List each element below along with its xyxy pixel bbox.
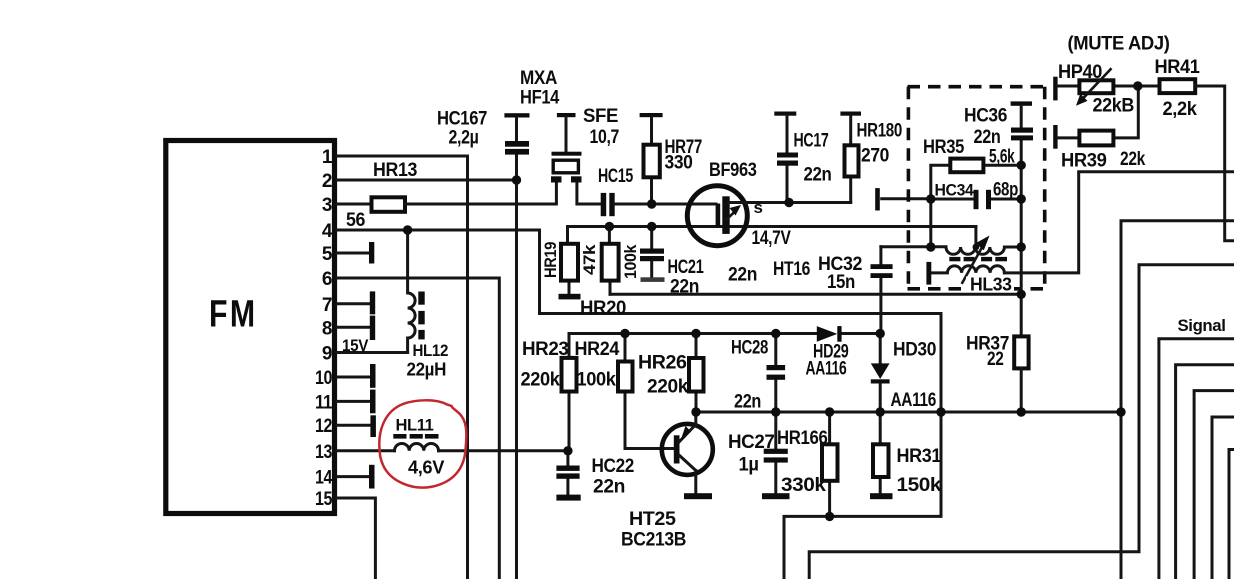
inductor HL12 22µH: [408, 230, 416, 353]
svg-text:4,6V: 4,6V: [408, 458, 444, 478]
svg-text:68p: 68p: [993, 180, 1018, 201]
svg-text:HR24: HR24: [575, 339, 620, 360]
wire pin6 to vertical bus: [337, 278, 499, 579]
junction HR35/HC36: [1017, 161, 1026, 170]
svg-text:330: 330: [665, 153, 693, 174]
svg-text:14: 14: [315, 468, 333, 489]
wire pin15: [337, 498, 375, 579]
wire pin8 stub: [337, 326, 370, 329]
terminal bar pin10: [370, 364, 376, 388]
svg-text:HR20: HR20: [580, 298, 626, 319]
svg-text:HL12: HL12: [413, 341, 449, 360]
resistor HR26 220k: [695, 334, 698, 413]
wire pin4 feed: [337, 230, 941, 412]
wire bus line 3: [1194, 391, 1234, 579]
wire mute output: [1121, 221, 1234, 579]
wire pin1 to vertical bus: [337, 156, 468, 579]
svg-text:22n: 22n: [804, 165, 832, 186]
junction pin2/HC167: [512, 175, 521, 184]
svg-text:100k: 100k: [621, 244, 640, 279]
svg-text:150k: 150k: [897, 475, 942, 496]
wire rail B: [696, 411, 1121, 414]
svg-text:HR26: HR26: [638, 353, 687, 374]
transformer HL33 primary: [881, 247, 1021, 255]
svg-text:22µH: 22µH: [407, 360, 447, 380]
svg-text:15: 15: [315, 489, 333, 510]
junction railB/HR166: [825, 407, 834, 416]
wire pin3 to SFE: [405, 183, 601, 205]
svg-text:HC28: HC28: [731, 338, 768, 359]
svg-text:HF14: HF14: [520, 88, 560, 109]
junction pin13/HC22: [563, 446, 572, 455]
capacitor HC28 22n: [774, 334, 777, 413]
capacitor HC22 22n: [566, 451, 569, 495]
svg-text:HP40: HP40: [1058, 62, 1102, 83]
svg-text:220k: 220k: [647, 377, 689, 398]
transistor HT25 BC213B: [662, 424, 713, 475]
svg-text:1: 1: [322, 147, 333, 168]
transformer HL33 core dashes: [949, 257, 960, 261]
svg-text:22kB: 22kB: [1093, 96, 1135, 117]
junction HC34/right: [1017, 194, 1026, 203]
terminal bar HL33 secondary: [926, 262, 931, 285]
svg-text:22k: 22k: [1120, 149, 1146, 170]
potentiometer HP40 22kB: [1053, 77, 1057, 101]
svg-text:MXA: MXA: [520, 68, 558, 89]
svg-text:22n: 22n: [728, 265, 757, 286]
wire bus line 2: [1176, 365, 1234, 579]
svg-text:HR13: HR13: [373, 160, 417, 181]
svg-text:22n: 22n: [734, 392, 761, 413]
svg-text:Signal: Signal: [1178, 316, 1226, 335]
label HL33: [966, 277, 1014, 292]
svg-text:HC15: HC15: [598, 166, 634, 187]
svg-text:2: 2: [322, 171, 332, 192]
junction HL33 tap: [973, 244, 980, 251]
terminal bar pin8: [370, 316, 375, 340]
junction source/HC17: [784, 198, 793, 207]
ground bar HC27: [762, 493, 790, 499]
ground bar HC22: [556, 495, 580, 501]
filter SFE 10,7 ceramic: [552, 152, 582, 156]
svg-text:270: 270: [861, 146, 889, 167]
capacitor HC32 15n: [879, 247, 882, 334]
junction pin4/HL12: [403, 225, 412, 234]
wire bus line outer: [809, 265, 1234, 579]
svg-text:HC22: HC22: [592, 456, 635, 477]
junction HR20 rail/HR37: [1017, 290, 1026, 299]
capacitor HC15: [601, 193, 607, 216]
resistor HR166 330k: [828, 412, 831, 516]
wire pin12 stub: [337, 424, 370, 427]
wire pin3: [337, 203, 372, 206]
terminal bar mixer output: [875, 188, 880, 210]
svg-text:HC167: HC167: [437, 109, 487, 130]
terminal bar pin5: [369, 242, 374, 264]
svg-text:HT25: HT25: [629, 509, 676, 530]
transistor U1 BF963 dual-gate MOSFET: [687, 186, 747, 246]
svg-text:4: 4: [322, 221, 333, 242]
junction railB/HC27: [771, 407, 780, 416]
wire rail A: [569, 332, 881, 335]
IC FM tuner block: [166, 141, 335, 514]
terminal bar pin14: [369, 465, 375, 489]
wire bus line 5: [1229, 450, 1234, 579]
wire pin14 stub: [337, 475, 370, 478]
capacitor HC167 2,2µ: [504, 113, 529, 117]
wire pin13 right: [439, 449, 568, 452]
svg-text:9: 9: [322, 344, 332, 365]
dashed discriminator box: [908, 87, 1046, 289]
wire HR20 bottom rail: [610, 293, 1021, 296]
svg-text:HC36: HC36: [964, 106, 1007, 127]
svg-text:AA116: AA116: [891, 390, 937, 411]
resistor HR37 22: [1014, 336, 1028, 368]
resistor HR20 100k: [608, 227, 612, 295]
terminal bar pin7: [370, 291, 375, 314]
wire pin13 left: [337, 449, 395, 452]
wire to HC34 row: [882, 197, 931, 200]
svg-text:HC27: HC27: [728, 432, 775, 453]
wire drain tap: [974, 227, 977, 248]
svg-text:7: 7: [322, 295, 332, 316]
svg-text:10: 10: [315, 368, 332, 389]
wire bus line 1: [1159, 339, 1234, 579]
svg-text:HD30: HD30: [893, 340, 936, 361]
svg-text:HR41: HR41: [1155, 57, 1201, 78]
svg-text:HR19: HR19: [541, 242, 560, 278]
svg-text:HC17: HC17: [794, 131, 829, 152]
junction HP40/HR41/HR39: [1133, 81, 1142, 90]
svg-text:HT16: HT16: [773, 259, 810, 280]
svg-text:(MUTE ADJ): (MUTE ADJ): [1068, 34, 1170, 55]
resistor HR41 2,2k: [1160, 79, 1196, 93]
junction railB/HD30: [876, 407, 885, 416]
svg-text:330k: 330k: [781, 475, 826, 496]
resistor HR77 330: [640, 113, 663, 117]
resistor 56: [372, 197, 406, 212]
svg-text:HR39: HR39: [1061, 151, 1107, 172]
svg-text:22n: 22n: [974, 127, 1001, 148]
transformer HL33 secondary: [931, 266, 1004, 273]
junction railB/HR37: [1017, 407, 1026, 416]
inductor HL11 4,6V: [395, 443, 439, 450]
svg-text:15n: 15n: [827, 272, 855, 293]
junction railA/HR26: [691, 329, 700, 338]
svg-text:8: 8: [322, 318, 332, 339]
annotation red circle around HL11: [379, 400, 466, 487]
svg-text:1µ: 1µ: [739, 455, 759, 476]
svg-text:22n: 22n: [670, 277, 699, 298]
wire bus line 4: [1212, 417, 1234, 579]
svg-text:6: 6: [322, 269, 332, 290]
wire pin5 stub: [337, 252, 370, 255]
wire source line: [730, 201, 851, 204]
svg-text:220k: 220k: [521, 370, 561, 391]
svg-text:HR31: HR31: [897, 446, 942, 467]
terminal bar pin12: [370, 415, 376, 437]
wire AF output lower: [784, 412, 941, 579]
ground bar HT25: [684, 493, 712, 499]
svg-text:22: 22: [987, 349, 1004, 370]
diode HD29 AA116: [817, 326, 838, 342]
svg-text:15V: 15V: [342, 336, 369, 355]
svg-text:HL33: HL33: [970, 275, 1012, 295]
junction railB/HR26: [691, 407, 700, 416]
ground bar HR31: [870, 493, 893, 499]
resistor HR24 100k: [625, 334, 674, 449]
svg-text:5,6k: 5,6k: [989, 147, 1015, 168]
svg-text:HR180: HR180: [857, 121, 903, 142]
svg-text:2,2k: 2,2k: [1163, 99, 1198, 120]
junction bias/HC21: [647, 222, 656, 231]
svg-text:56: 56: [346, 210, 365, 231]
svg-text:47k: 47k: [580, 244, 599, 275]
resistor HR35 5,6k: [931, 165, 1021, 247]
svg-text:100k: 100k: [577, 370, 617, 391]
junction bias/HR20: [605, 222, 614, 231]
svg-text:BF963: BF963: [709, 160, 757, 181]
svg-text:AA116: AA116: [806, 359, 847, 380]
wire pin10 stub: [337, 376, 370, 379]
resistor HR19 47k: [568, 227, 570, 293]
junction railA/HC28: [771, 329, 780, 338]
capacitor HC21 22n: [650, 227, 653, 277]
junction HL33/left: [926, 242, 935, 251]
resistor HR180 270: [840, 112, 861, 116]
capacitor HC34 68p: [931, 198, 1021, 201]
junction railB/mute: [1116, 407, 1125, 416]
wire HL33 secondary output: [1004, 172, 1234, 273]
terminal MXA HF14: [557, 113, 576, 117]
resistor HR39 22k: [1053, 125, 1057, 149]
junction railA/HR24: [620, 329, 629, 338]
svg-text:14,7V: 14,7V: [752, 228, 792, 249]
svg-text:BC213B: BC213B: [621, 530, 686, 551]
junction HR166/AF out: [825, 512, 834, 521]
resistor HR23 220k: [568, 334, 571, 451]
terminal bar pin11: [370, 390, 376, 414]
svg-text:HC34: HC34: [935, 181, 975, 200]
svg-text:12: 12: [315, 416, 332, 437]
svg-text:22n: 22n: [593, 477, 625, 498]
capacitor HC36 22n: [1011, 101, 1032, 105]
wire pin2 HR13 line: [337, 179, 517, 182]
wire pin7 stub: [337, 302, 370, 305]
svg-text:5: 5: [322, 244, 333, 265]
svg-text:3: 3: [322, 195, 332, 216]
svg-text:HR23: HR23: [522, 339, 569, 360]
wire pin9 to HL12: [337, 351, 408, 354]
junction HC34/HR35: [926, 194, 935, 203]
junction gate/HR77: [647, 199, 656, 208]
wire g2 bias / drain line: [568, 225, 976, 228]
junction railA/HD30/HC32: [876, 329, 885, 338]
junction railB/pin4 feed: [936, 407, 945, 416]
svg-text:13: 13: [315, 442, 332, 463]
diode HD30 AA116: [879, 334, 882, 413]
resistor HR31 150k: [879, 412, 882, 493]
svg-text:2,2µ: 2,2µ: [449, 128, 479, 149]
capacitor HC17 22n: [774, 112, 796, 116]
arrow HL33 tuning: [962, 247, 982, 283]
junction HL33/right: [1017, 242, 1026, 251]
svg-text:11: 11: [315, 392, 333, 413]
svg-text:s: s: [754, 198, 763, 217]
svg-text:10,7: 10,7: [590, 127, 620, 148]
svg-text:SFE: SFE: [583, 106, 618, 127]
svg-text:HL11: HL11: [396, 416, 434, 435]
wire HC15 to gate: [615, 203, 716, 206]
svg-text:HR35: HR35: [923, 137, 965, 158]
ground bar HR19: [559, 294, 581, 300]
svg-text:HC21: HC21: [668, 257, 705, 278]
capacitor HC27 1µ: [774, 412, 777, 493]
svg-text:HR166: HR166: [777, 428, 828, 449]
svg-text:FM: FM: [209, 294, 258, 336]
wire pin11 stub: [337, 400, 370, 403]
